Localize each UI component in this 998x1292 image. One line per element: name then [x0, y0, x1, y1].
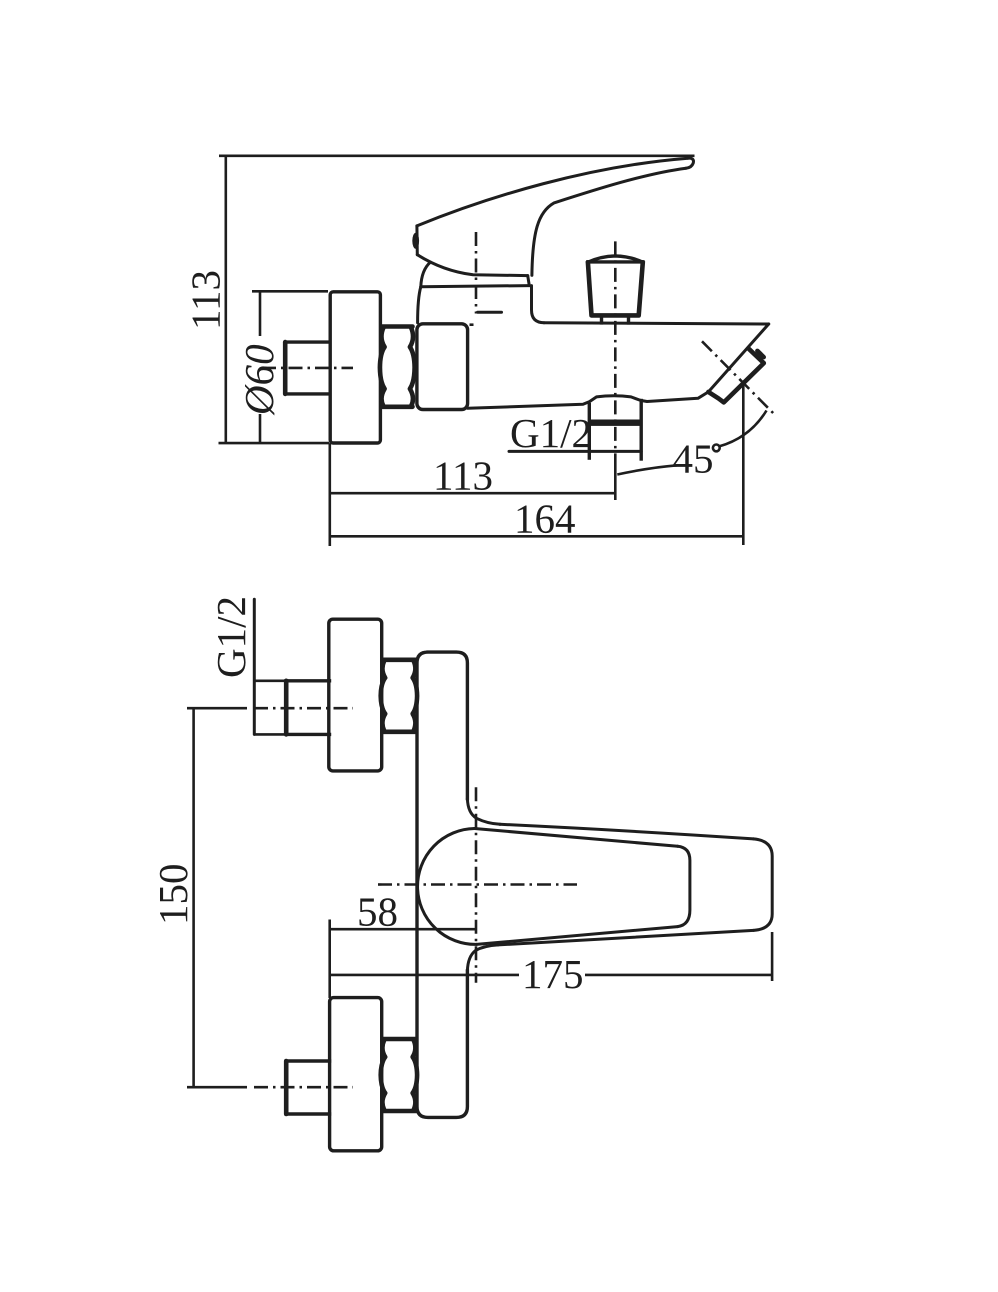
extension line top (overall height) — [219, 155, 695, 158]
handle outer bottom edge — [498, 930, 754, 945]
spout 45 face — [708, 324, 768, 392]
grip right end — [678, 846, 690, 926]
aerator outline — [708, 348, 763, 402]
top flange — [329, 619, 382, 771]
pipe nipple thick wall edge — [283, 342, 288, 394]
bottom union top edge — [383, 1037, 417, 1042]
svg-text:G1/2: G1/2 — [510, 410, 592, 456]
union nut right wavy profile — [410, 328, 415, 407]
svg-text:164: 164 — [514, 496, 576, 542]
union nut bottom edge — [382, 404, 413, 409]
body joint line — [421, 286, 530, 287]
extension line bottom shared — [219, 442, 330, 445]
lever bottom edge — [417, 255, 527, 276]
diverter knob chord — [588, 260, 643, 263]
lever tip end cap — [686, 158, 694, 168]
45deg arc right — [720, 411, 767, 447]
bottom flange — [330, 998, 382, 1151]
top nipple — [286, 681, 329, 735]
top union right wavy — [413, 661, 418, 731]
150 ext line top — [187, 707, 247, 710]
lever neck curve — [532, 168, 686, 275]
svg-text:113: 113 — [183, 270, 229, 330]
nipple centerline — [262, 367, 353, 370]
cartridge housing rounded rect — [417, 324, 468, 410]
extension line phi60 top — [252, 290, 328, 293]
lever handle tip — [415, 226, 418, 255]
knob tab left — [600, 315, 603, 323]
svg-text:58: 58 — [357, 889, 398, 935]
handle dome circle arc — [418, 829, 477, 945]
ext line 58/175 left — [328, 920, 331, 999]
extension line flange left down — [328, 443, 331, 546]
ext line nipple top — [254, 679, 285, 682]
svg-text:113: 113 — [433, 453, 493, 499]
top union top edge — [383, 657, 417, 662]
cartridge center tick — [478, 311, 502, 314]
top union left wavy — [381, 661, 386, 731]
dimension 113 bottom line — [330, 492, 616, 495]
wall flange rect — [330, 292, 380, 443]
union nut left wavy profile — [380, 328, 385, 407]
bottom nipple centerline — [254, 1086, 353, 1089]
dimension 113 vertical line — [225, 156, 228, 443]
spout axis dash-dot — [702, 341, 776, 416]
bottom union left wavy — [381, 1040, 386, 1110]
dimension 164 line — [330, 535, 744, 538]
lever handle top edge — [417, 158, 688, 226]
handle outer right end — [754, 839, 773, 931]
knob axis dash-dot — [614, 241, 617, 455]
45deg arc left — [617, 465, 677, 474]
bottom union bottom edge — [383, 1109, 417, 1114]
top union bottom edge — [383, 729, 417, 734]
dimension 175 line left part — [330, 974, 519, 977]
body bar — [417, 652, 467, 1117]
G1/2 underline vertical — [253, 599, 256, 734]
horizontal centerline dash-dot — [378, 883, 577, 886]
bottom nipple thick wall edge — [284, 1061, 289, 1114]
lever base left curve — [421, 262, 431, 287]
body cover left edge — [418, 287, 421, 323]
knob tab right — [627, 315, 630, 323]
top nipple centerline — [254, 707, 353, 710]
grip top line — [475, 829, 678, 847]
center dot mark — [470, 323, 474, 326]
ext line nipple bottom — [254, 733, 285, 736]
grip bottom line — [477, 927, 678, 945]
degree circle — [713, 445, 720, 452]
diverter knob top arc — [588, 256, 643, 262]
union nut top edge — [382, 324, 413, 329]
bottom union right wavy — [413, 1040, 418, 1110]
dimension 175 line right part — [585, 974, 772, 977]
lever base right step — [528, 276, 530, 286]
dimension 58 line — [330, 928, 476, 931]
spout top line — [544, 323, 769, 324]
G1/2 underline — [509, 450, 641, 453]
bottom nipple — [286, 1061, 329, 1114]
handle outer top edge — [500, 824, 754, 839]
cartridge axis dash-dot — [475, 232, 478, 314]
lever tip dot — [412, 233, 419, 249]
dimension phi60 vertical line — [259, 291, 262, 336]
aerator notch step — [757, 351, 763, 357]
shower outlet right edge — [640, 401, 643, 460]
handle outer bottom fillet — [467, 945, 498, 971]
svg-text:Ø60: Ø60 — [236, 344, 282, 416]
dimension 150 vertical — [192, 708, 195, 1087]
extension line spout tip down — [742, 386, 745, 545]
vertical axis dash-dot — [475, 787, 478, 983]
svg-text:45: 45 — [673, 436, 714, 482]
knob axis solid extension — [614, 455, 617, 500]
pipe nipple — [285, 342, 329, 394]
top nipple thick wall edge — [284, 681, 289, 735]
handle outer top fillet — [467, 799, 500, 825]
svg-text:175: 175 — [522, 951, 584, 997]
svg-text:G1/2: G1/2 — [208, 596, 254, 678]
diverter knob body — [588, 262, 643, 315]
shower outlet thread band — [589, 420, 641, 426]
150 ext line bottom — [187, 1086, 247, 1089]
spout underside — [468, 392, 709, 408]
svg-text:150: 150 — [150, 864, 196, 926]
shower outlet left edge — [588, 405, 591, 459]
ext line 175 right — [771, 932, 774, 981]
body right edge with corner to spout — [532, 286, 545, 323]
